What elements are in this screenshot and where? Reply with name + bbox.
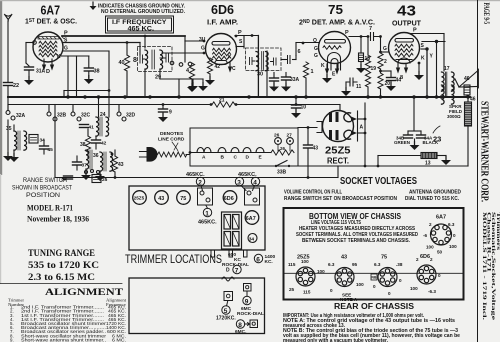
antenna [5,15,12,22]
margin separator line [477,0,479,342]
capacitor 43b [307,128,309,145]
svg-text:9: 9 [169,110,172,116]
svg-text:1: 1 [311,69,314,75]
svg-text:G: G [201,46,205,52]
43 grid wire [381,51,390,53]
svg-text:26: 26 [280,146,286,151]
svg-text:B: B [221,155,225,161]
capacitor 44 [381,70,392,72]
svg-text:ANTENNA GROUNDED: ANTENNA GROUNDED [409,189,461,195]
padder 25 box [92,175,101,183]
svg-text:50: 50 [437,250,443,255]
svg-text:32C: 32C [81,113,91,119]
svg-text:2.3 to 6.15 MC: 2.3 to 6.15 MC [28,272,95,282]
tube circle 43 [155,191,169,205]
svg-text:C: C [232,66,236,72]
svg-text:75: 75 [328,3,343,17]
capacitor 34A [420,131,422,134]
25Z5 cathode wires [358,118,366,120]
svg-text:100: 100 [317,269,325,274]
6A7 cathode arrows [43,59,54,69]
svg-text:465KC.: 465KC. [186,172,205,178]
svg-text:A: A [202,155,206,161]
see note B tag [371,274,377,280]
small switch circles [85,171,88,174]
capacitor 37 [73,162,82,165]
rule above alignment table [0,283,122,285]
svg-text:REAR OF CHASSIS: REAR OF CHASSIS [334,302,415,311]
svg-text:S: S [421,43,425,49]
svg-text:6: 6 [256,256,260,263]
svg-text:GREEN: GREEN [394,140,410,145]
75 cathode arrows [326,64,339,73]
svg-text:6D6: 6D6 [211,3,234,17]
choke 13 [378,155,421,157]
25Z5 socket [296,267,315,286]
tube circle 75 [177,191,191,205]
IF2 primary coil [256,52,259,71]
wire to 6A7 grid [26,42,34,44]
svg-text:46: 46 [464,76,470,82]
capacitor 34B [407,131,409,134]
tube circle 6A7 [245,211,259,225]
svg-text:6.3: 6.3 [448,222,455,227]
IF frequency box [106,16,174,33]
svg-text:6A7: 6A7 [436,215,446,221]
ground antenna [3,152,13,161]
svg-text:100: 100 [426,245,434,250]
svg-text:K: K [421,56,425,62]
antenna lead lower wire [7,86,9,111]
svg-text:100: 100 [356,282,364,287]
sw osc trimmer square [244,284,252,292]
ground 75 cathode [326,73,328,77]
svg-text:NB: NB [372,276,377,280]
svg-text:LINE CORD: LINE CORD [158,137,185,143]
svg-text:38: 38 [94,69,100,75]
svg-text:BLACK: BLACK [423,140,439,145]
svg-text:115: 115 [288,262,296,267]
tuning gang condenser [222,212,242,249]
dial cord squiggle [222,277,234,281]
svg-text:POSITION: POSITION [26,192,60,199]
filter node wire [413,97,415,131]
svg-text:33B: 33B [277,170,287,176]
svg-text:RECT.: RECT. [327,157,349,166]
secondary bus left [8,104,212,106]
svg-text:Trimmers: Trimmers [495,212,500,250]
svg-text:DIAL TUNED TO 515 KC.: DIAL TUNED TO 515 KC. [405,196,460,202]
svg-text:465KC.: 465KC. [198,220,217,226]
6D6 voltages [410,257,441,294]
svg-text:1720KC.: 1720KC. [216,316,236,322]
svg-text:K: K [321,63,325,69]
capacitor 9 [162,105,164,109]
chassis feet [211,250,247,257]
svg-text:100: 100 [301,259,309,264]
chassis ground note symbol [90,2,97,11]
svg-text:43: 43 [397,4,416,20]
resistor 26 [271,150,294,155]
trimmer 4 callout [251,177,259,190]
IF2 AVC wire [295,43,297,56]
svg-text:9: 9 [245,298,249,305]
osc shunt trimmer square [224,292,233,301]
svg-text:8: 8 [238,322,242,329]
line cord plug [140,152,147,158]
rear chassis outline (trimmer locations) [129,278,265,334]
svg-text:KC.: KC. [265,259,273,265]
svg-text:.38: .38 [396,262,403,267]
grommet 34 [248,234,257,243]
svg-text:535 to 1720 KC: 535 to 1720 KC [28,260,99,270]
svg-text:45: 45 [48,147,54,153]
svg-text:C: C [234,155,238,161]
padder 34 box [29,135,38,144]
tube circle 25Z5 [133,191,147,205]
svg-text:MODEL R-171: MODEL R-171 [27,204,73,213]
svg-text:3: 3 [237,179,241,186]
svg-text:33A: 33A [290,77,300,83]
svg-text:25Z5: 25Z5 [325,145,351,157]
svg-text:TRIMMER LOCATIONS: TRIMMER LOCATIONS [125,254,222,266]
svg-text:6.3: 6.3 [328,262,335,267]
resistor 4 [189,63,194,79]
svg-text:32B: 32B [57,113,67,119]
svg-text:G: G [314,46,318,52]
resistor 40 [126,43,128,56]
svg-text:E: E [332,72,336,78]
capacitor 45 [40,146,49,149]
svg-text:43: 43 [158,196,164,202]
svg-text:43: 43 [313,146,319,152]
resistor 43c [112,156,117,172]
IF1 trimmer left [140,55,145,63]
switch contact 32C [71,112,75,116]
svg-text:2: 2 [430,257,433,262]
switch 33B [275,165,277,167]
speaker [455,70,478,98]
svg-text:P: P [345,30,349,36]
tube circle 6D6 [223,191,237,205]
svg-text:1: 1 [205,210,209,217]
svg-text:42: 42 [101,141,107,147]
alignment table rows [10,305,126,342]
wire cap7 to resistor 2 [380,37,382,54]
IF trimmer square 1 [198,188,213,205]
resistor 1 [303,62,308,78]
trimmer 5 callout [222,302,230,315]
svg-text:4: 4 [186,68,190,74]
IF2 trimmer right [271,58,277,65]
svg-text:SHOWN IN BROADCAST: SHOWN IN BROADCAST [12,185,72,192]
svg-text:0: 0 [330,288,333,293]
svg-text:22: 22 [13,83,19,89]
43 socket [335,268,354,287]
svg-text:0: 0 [388,291,391,296]
svg-text:30: 30 [257,72,263,78]
tube 75 [319,32,351,71]
IF transformer 2 dashed box [246,48,282,71]
IF2 core [262,52,264,70]
wire segment left [64,90,109,92]
svg-text:6A7: 6A7 [41,4,61,18]
svg-text:0: 0 [399,278,402,283]
svg-text:D: D [46,69,50,75]
svg-text:VOLUME CONTROL ON FULL: VOLUME CONTROL ON FULL [284,189,342,195]
lamp E [256,148,264,153]
svg-text:8: 8 [400,75,403,81]
6A7 socket voltages [423,222,457,255]
svg-text:6.3: 6.3 [374,262,381,267]
25Z5 diode arrows [357,111,359,141]
lamp D [243,148,251,153]
IF transformer 1 dashed box [138,47,173,72]
switch contact 32A [6,111,10,115]
capacitor 22 [4,83,13,86]
svg-text:SOCKET VOLTAGES: SOCKET VOLTAGES [340,175,417,187]
svg-text:NO EXTERNAL GROUND UTILIZED.: NO EXTERNAL GROUND UTILIZED. [101,9,186,15]
svg-text:2: 2 [198,179,202,186]
svg-text:25: 25 [289,287,295,292]
svg-text:DENOTES: DENOTES [160,131,184,137]
svg-text:3000Ω: 3000Ω [447,114,461,119]
svg-text:6: 6 [298,49,301,55]
speaker field coil [467,97,469,102]
trimmer 9 callout [243,292,251,305]
resistor 2 [378,53,383,69]
tube 25Z5 [317,111,354,142]
capacitor 38 [88,56,90,67]
svg-text:21: 21 [219,98,225,104]
svg-text:8: 8 [133,57,137,64]
IF trimmer square 2 [245,188,260,205]
wire box to rectifier [298,127,317,129]
switch contact 32D [117,112,121,116]
capacitor 10 [295,97,297,104]
svg-text:32D: 32D [126,113,136,119]
capacitor 6 [286,56,291,64]
lamp wire [190,152,271,154]
svg-text:Y: Y [430,54,434,60]
capacitor 31A [25,67,34,70]
ground 34 caps [414,139,416,144]
IF1 secondary wires [162,52,204,54]
IF1 secondary coil [160,50,163,69]
trimmer 1 callout [203,206,211,217]
tube 6D6 [206,34,237,65]
svg-text:I.F. AMP.: I.F. AMP. [207,18,238,27]
trimmer 3 callout [235,177,246,190]
IF1 primary coil [145,50,148,69]
resistor 19 [367,37,369,56]
svg-text:D: D [226,268,230,274]
IF2 trimmer left [250,58,256,65]
svg-text:PAGE 9-5: PAGE 9-5 [482,3,492,25]
ground pair above bus left [192,79,194,85]
IF1 primary bottom wire [144,69,146,97]
75 socket [378,268,397,287]
svg-text:41: 41 [89,125,95,131]
svg-text:40: 40 [119,60,125,66]
svg-text:100: 100 [410,286,418,291]
6D6 cathode arrow [229,62,232,71]
svg-text:43: 43 [118,162,124,168]
antenna lead wire [7,21,9,82]
resistor 21 [212,102,235,107]
svg-text:36: 36 [93,153,99,159]
svg-text:1ST DET. & OSC.: 1ST DET. & OSC. [25,17,77,26]
tube 6A7 [33,32,64,62]
secondary bus right [235,104,340,106]
6A7 socket [431,224,452,245]
chassis line through sockets [285,272,463,274]
svg-text:K: K [57,54,61,60]
svg-text:6 MC.: 6 MC. [112,337,126,342]
svg-text:OUTPUT: OUTPUT [392,19,421,28]
svg-text:2ND DET. AMP. & A.V.C.: 2ND DET. AMP. & A.V.C. [299,18,375,27]
svg-text:32A: 32A [16,113,26,119]
coil 24 feed [98,97,100,117]
resistor 20 [380,69,382,73]
svg-text:7: 7 [235,267,239,274]
svg-text:9.: 9. [10,337,14,342]
svg-text:0: 0 [453,233,456,238]
43 voltages [328,262,364,302]
svg-text:BETWEEN SOCKET TERMINALS AND C: BETWEEN SOCKET TERMINALS AND CHASSIS. [302,238,411,244]
svg-text:31A: 31A [36,69,46,75]
svg-text:RANGE SWITCH: RANGE SWITCH [23,177,67,184]
svg-text:-6.3: -6.3 [428,289,436,294]
svg-text:STEWART-WARNER CORP.: STEWART-WARNER CORP. [479,101,490,202]
svg-text:ROCK-DIAL: ROCK-DIAL [237,311,264,317]
capacitor 45b below IF2 [273,73,275,78]
svg-text:ALIGNMENT: ALIGNMENT [45,287,123,297]
IF1 trimmer right [160,54,169,62]
svg-text:D: D [246,155,250,161]
svg-text:25Z5: 25Z5 [134,196,145,201]
capacitor 41 [80,125,89,128]
sw ant trimmer square [250,320,258,328]
svg-text:25: 25 [102,177,108,183]
resistor 38b [85,136,90,152]
main B bus [8,96,470,98]
75 voltages [373,262,403,296]
svg-text:37: 37 [82,163,88,169]
svg-text:11: 11 [356,84,362,90]
svg-text:95: 95 [352,262,358,267]
capacitor 33A [285,73,287,77]
43 cathode arrows [397,64,408,72]
svg-text:465 KC.: 465 KC. [128,26,155,33]
switch contact 32B [47,112,51,116]
socket voltages outer box [284,208,464,300]
6D6 socket [417,265,436,284]
svg-text:100: 100 [449,244,457,249]
svg-text:RANGE SWITCH SET ON BROADCAST: RANGE SWITCH SET ON BROADCAST POSITION [284,196,397,202]
lamp B [218,148,226,153]
svg-text:G: G [314,53,318,59]
svg-text:6D6: 6D6 [420,254,430,260]
svg-text:6D6: 6D6 [224,196,234,202]
svg-text:measured only with a vacuum tu: measured only with a vacuum tube voltmet… [283,338,389,342]
svg-text:November 18, 1936: November 18, 1936 [27,215,89,224]
svg-text:Q: Q [313,38,317,44]
svg-text:TUNING RANGE: TUNING RANGE [28,248,95,258]
svg-text:75: 75 [180,196,186,202]
svg-text:4: 4 [253,179,257,186]
svg-text:Short-wave antenna shunt trimm: Short-wave antenna shunt trimmer.. [21,337,106,342]
svg-text:2: 2 [429,222,432,227]
trimmer 2 callout [196,177,204,190]
svg-text:10: 10 [301,105,307,111]
capacitor 7 [371,33,381,41]
lamp A [197,148,211,153]
svg-text:P: P [413,28,417,34]
oscillator coil 35B [86,150,89,169]
bottom return bus [55,177,338,179]
svg-text:43: 43 [341,255,347,261]
svg-text:42: 42 [215,64,221,70]
svg-text:0: 0 [438,273,441,278]
svg-text:17: 17 [444,66,450,72]
25Z5 voltages [288,259,325,295]
svg-text:19: 19 [371,66,377,72]
capacitor 39 [64,176,73,179]
svg-text:38: 38 [80,142,86,148]
trimmer 6 callout [254,254,262,262]
bottom view chassis outline (trimmer locations) [129,186,265,250]
svg-text:75: 75 [381,255,387,261]
tube 43 [389,33,420,64]
svg-text:35: 35 [6,126,12,132]
svg-text:7: 7 [369,26,372,32]
svg-text:E: E [259,155,263,161]
wire to resistor 15 [360,37,362,54]
lamp C [231,148,239,153]
svg-text:115: 115 [303,290,311,295]
trimmer 8 callout [236,320,249,328]
bias cell 11 [346,78,357,86]
svg-text:2: 2 [416,257,419,262]
svg-text:24: 24 [100,112,106,118]
pilot lamp box [190,128,298,166]
svg-text:2: 2 [384,59,387,65]
svg-text:34: 34 [249,236,255,242]
svg-text:S: S [239,39,243,45]
svg-text:A: A [360,125,364,131]
svg-text:-6: -6 [423,233,428,238]
resistor 15 [359,53,364,62]
svg-text:0: 0 [373,284,376,289]
capacitor 42b [95,136,97,139]
svg-text:G: G [383,46,387,52]
resistor 42 [207,58,212,74]
notes [283,313,460,342]
scan edge artifact [0,0,2,175]
svg-text:6A7: 6A7 [246,216,256,222]
switch contacts under 6D6 [170,61,174,65]
svg-text:6MC.: 6MC. [235,329,246,335]
IF2 secondary coil [266,52,269,71]
svg-text:K: K [228,55,232,61]
line cord squiggle [158,152,191,157]
IF1 core [152,50,154,69]
svg-text:5: 5 [224,308,228,315]
